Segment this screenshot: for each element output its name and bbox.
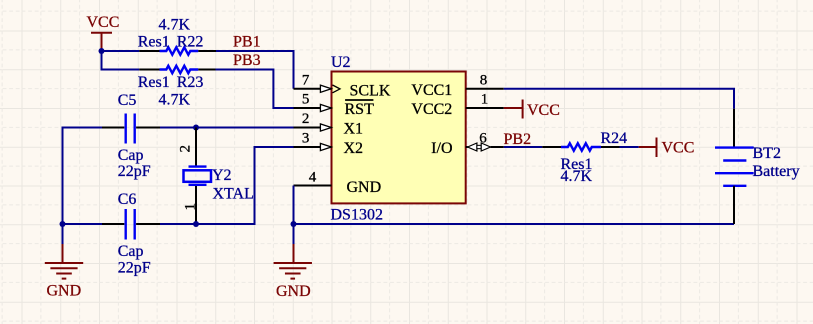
pin 1 VCC2 [411, 92, 503, 118]
power port VCC (top left) [87, 14, 120, 51]
resistor R23 [138, 66, 216, 109]
svg-text:R22: R22 [177, 33, 204, 50]
svg-text:C6: C6 [118, 191, 137, 208]
wire C6/crystal to X2 riser [160, 147, 294, 224]
capacitor C6 [102, 191, 160, 277]
wire R22 to pin7 (net PB1) [216, 51, 294, 89]
svg-text:Res1: Res1 [138, 33, 170, 50]
pin 3 X2 [294, 131, 364, 158]
svg-text:1: 1 [183, 203, 199, 211]
svg-text:VCC: VCC [87, 14, 120, 31]
svg-text:Y2: Y2 [212, 167, 232, 184]
svg-text:1: 1 [481, 92, 489, 108]
svg-text:BT2: BT2 [753, 145, 781, 162]
svg-text:X2: X2 [344, 140, 364, 157]
svg-text:VCC: VCC [527, 102, 560, 119]
wire bottom rail to battery [294, 223, 735, 225]
crystal Y2 [178, 128, 254, 225]
svg-text:4.7K: 4.7K [159, 92, 191, 109]
resistor R22 [138, 17, 216, 55]
wire left rail (GND to C5/C6 left plates) [63, 128, 103, 225]
ground GND (left) [45, 224, 83, 300]
svg-text:PB1: PB1 [233, 33, 261, 50]
pin 8 VCC1 [411, 72, 503, 99]
svg-text:8: 8 [480, 72, 488, 88]
wire pin8 to battery top [504, 89, 734, 109]
wire VCC down to R23 [102, 51, 140, 70]
svg-text:2: 2 [302, 111, 310, 127]
svg-text:6: 6 [479, 131, 487, 147]
svg-text:4.7K: 4.7K [561, 168, 593, 185]
svg-text:XTAL: XTAL [213, 186, 254, 203]
resistor R24 [542, 130, 627, 185]
svg-text:VCC: VCC [662, 140, 695, 157]
svg-text:VCC1: VCC1 [411, 82, 452, 99]
svg-text:SCLK: SCLK [350, 82, 391, 99]
junction dot (X1 node) [193, 125, 199, 131]
power port VCC (right of VCC2) [504, 100, 560, 120]
svg-text:GND: GND [276, 283, 311, 300]
svg-text:PB3: PB3 [233, 52, 261, 69]
svg-text:22pF: 22pF [118, 163, 151, 180]
wire C6 left to rail [63, 223, 103, 225]
svg-text:4: 4 [309, 169, 317, 185]
svg-text:2: 2 [178, 145, 194, 153]
svg-text:DS1302: DS1302 [331, 206, 383, 223]
svg-text:U2: U2 [331, 54, 351, 71]
pin 6 I/O [431, 131, 504, 158]
battery BT2 [715, 109, 800, 224]
svg-text:3: 3 [302, 131, 310, 147]
svg-text:7: 7 [302, 72, 310, 88]
junction dot (right GND node) [291, 221, 297, 227]
wire C5 to X1 [160, 127, 294, 129]
svg-text:22pF: 22pF [118, 260, 151, 277]
wire R24 to VCC [620, 146, 639, 148]
ground GND (right) [274, 224, 312, 300]
IC U2 DS1302 body [332, 72, 466, 204]
wire pin4 riser [293, 186, 295, 225]
junction dot (left GND node) [60, 221, 66, 227]
pin 2 X1 [294, 111, 364, 138]
capacitor C5 [102, 92, 160, 180]
wire VCC to R22 [102, 50, 140, 52]
wire pin6 to R24 [504, 146, 542, 148]
junction dot (VCC node) [99, 48, 105, 54]
svg-text:R24: R24 [601, 130, 628, 147]
svg-text:5: 5 [302, 92, 310, 108]
svg-text:X1: X1 [344, 121, 364, 138]
svg-text:R23: R23 [177, 74, 204, 91]
power port VCC (right of R24) [639, 138, 695, 158]
svg-text:I/O: I/O [431, 140, 452, 157]
svg-text:RST: RST [345, 101, 375, 118]
wire R23 to pin5 (net PB3) [216, 70, 294, 109]
svg-text:Battery: Battery [753, 163, 800, 180]
svg-text:VCC2: VCC2 [411, 101, 452, 118]
svg-text:C5: C5 [118, 92, 137, 109]
svg-text:GND: GND [347, 179, 382, 196]
svg-text:PB2: PB2 [504, 131, 532, 148]
svg-text:GND: GND [47, 283, 82, 300]
pin 5 RST [294, 92, 375, 119]
pin 7 SCLK [294, 72, 391, 99]
svg-text:Res1: Res1 [138, 74, 170, 91]
pin 4 GND [294, 169, 382, 196]
svg-text:Cap: Cap [118, 147, 144, 164]
svg-text:4.7K: 4.7K [159, 17, 191, 34]
junction dot (crystal bottom) [193, 221, 199, 227]
svg-text:Cap: Cap [118, 243, 144, 260]
